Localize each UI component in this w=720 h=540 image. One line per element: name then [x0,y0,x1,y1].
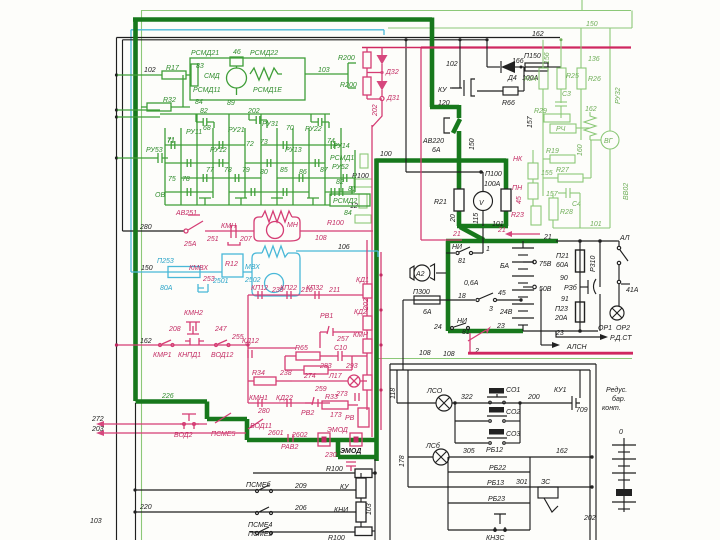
junction dots on frame [115,73,118,76]
pink column top: resistor R200 box 1 [363,52,371,68]
svg-text:238: 238 [279,370,292,377]
button KNZS [448,529,530,531]
svg-text:106: 106 [338,244,350,251]
svg-text:6А: 6А [432,147,441,154]
pink rail x=381 [380,252,382,430]
svg-text:77: 77 [206,167,215,174]
svg-text:АВ251: АВ251 [175,210,197,217]
svg-text:РУ14: РУ14 [333,143,350,150]
svg-text:РСМД1Е: РСМД1Е [253,87,282,94]
svg-text:КУ: КУ [438,87,448,94]
capacitor below EMOD [346,462,356,471]
svg-text:ЛСб: ЛСб [425,442,441,450]
svg-text:21: 21 [452,231,461,238]
contact SO1 [489,388,504,394]
svg-text:272: 272 [91,416,104,423]
svg-text:200: 200 [527,394,540,401]
svg-text:78: 78 [224,167,232,174]
svg-text:РСМД11: РСМД11 [193,87,221,94]
thick green route: horizontal y=419 [207,417,247,422]
svg-text:КУ: КУ [340,484,350,491]
svg-text:РВ: РВ [345,415,355,422]
diode D31 [377,81,388,91]
blade VOD11 on green [248,419,263,429]
svg-text:305: 305 [463,448,475,455]
vertical x=600 [599,241,601,287]
svg-text:20: 20 [450,214,457,223]
contact VOD12 [215,344,218,347]
svg-text:НИ: НИ [452,244,463,251]
svg-text:2501: 2501 [212,278,229,285]
svg-text:КМН: КМН [221,223,237,230]
pink resistor R200 box 2 [363,77,371,95]
contact KP12 [258,291,262,299]
svg-text:ВОД12: ВОД12 [211,352,234,359]
svg-text:207: 207 [239,236,253,243]
svg-text:конт.: конт. [602,405,621,412]
contact KP32 [315,291,319,299]
svg-text:75В: 75В [539,261,552,268]
resistor R21 box on green [454,189,464,211]
svg-text:П21: П21 [556,253,569,260]
black corner to AB251 line [123,230,185,232]
motor SMD circle [230,57,243,66]
svg-text:ЭМОД: ЭМОД [340,448,361,455]
svg-text:R100: R100 [327,220,344,227]
SO3 parallel branch [455,442,488,444]
svg-text:87: 87 [320,167,329,174]
svg-text:101: 101 [590,221,602,228]
voltmeter feed wire [482,172,484,192]
black vertical x=406 [405,40,407,172]
svg-text:R28: R28 [560,209,573,216]
svg-text:СО3: СО3 [506,431,520,438]
svg-text:206: 206 [294,505,307,512]
EMOD green box bottom [338,455,377,460]
svg-text:23: 23 [496,323,505,330]
pink bus left portion [362,47,421,49]
thick green route: bottom of meter loop y=226 [457,224,508,229]
svg-text:РУ12: РУ12 [210,147,227,154]
svg-text:КД2: КД2 [354,309,367,316]
thick green route: left long vertical [133,18,138,402]
relay coil box 4 [363,375,372,390]
svg-text:46: 46 [233,49,241,56]
svg-text:БА: БА [500,263,509,270]
svg-text:РБ12: РБ12 [486,447,503,454]
svg-text:ВГ: ВГ [604,138,614,145]
bus line 2 [390,369,590,371]
svg-text:280: 280 [139,224,152,231]
black vertical x=135 lower [135,403,137,540]
zigzag resistor RSMD1E [250,68,282,80]
svg-text:РВ1: РВ1 [320,313,333,320]
svg-text:КП22: КП22 [280,285,297,292]
wires below resistors [542,89,544,115]
svg-text:3: 3 [489,306,493,313]
svg-text:156: 156 [544,52,551,64]
svg-text:68: 68 [203,125,211,132]
svg-text:П300: П300 [413,289,430,296]
svg-text:ЛСО: ЛСО [426,388,443,395]
svg-text:ВВ02: ВВ02 [623,183,630,200]
svg-text:ЗС: ЗС [541,479,551,486]
svg-text:102: 102 [144,67,156,74]
svg-text:203: 203 [91,426,104,433]
svg-text:КМВХ: КМВХ [189,265,208,272]
RB13 line [408,486,590,488]
pink long bus y=353 [468,352,633,355]
thick green blade diagonal [460,227,484,240]
svg-text:бар.: бар. [612,395,626,403]
svg-text:80А: 80А [160,285,173,292]
svg-text:84: 84 [344,210,352,217]
svg-text:АЛСН: АЛСН [566,344,588,351]
pink KMN2 control line y=345 [117,344,248,346]
svg-text:Р.Д.СТ: Р.Д.СТ [610,335,632,342]
black frame inner vertical [122,40,124,231]
resistor R66 [477,90,503,92]
svg-text:КНЗС: КНЗС [486,535,505,540]
svg-text:226: 226 [161,393,174,400]
svg-text:273: 273 [335,391,348,398]
svg-text:108: 108 [315,235,327,242]
svg-text:162: 162 [140,338,152,345]
bottom bus y=331 black to RDST [523,330,598,332]
svg-text:709: 709 [576,407,588,414]
resistor lower [304,366,328,374]
pink arrow line 272 [104,423,207,425]
svg-text:82: 82 [336,179,344,186]
svg-text:108: 108 [443,351,455,358]
dashed stubs y=110 y=117 [117,109,160,111]
svg-text:21: 21 [497,227,506,234]
junction dot [479,170,482,173]
resistor R12 [222,254,243,277]
ammeter A2 [410,266,414,280]
svg-text:72: 72 [246,141,254,148]
svg-text:41А: 41А [626,287,639,294]
black frame top horizontal inner [123,39,488,41]
black vertical from EMOD down [374,459,376,540]
black frame outer vertical [116,38,118,540]
light green long horizontal 108 line [376,358,632,360]
battery tap 50V [523,286,532,288]
pink arrow 21 right [512,233,540,235]
top battery bus y=241 black [556,240,617,242]
svg-text:118: 118 [390,388,397,399]
svg-text:100А: 100А [484,181,501,188]
thick green route: AB220 vertical [457,105,462,118]
svg-text:РБ22: РБ22 [489,465,506,472]
pink link down to pink bus [469,333,471,352]
svg-text:R34: R34 [252,370,265,377]
zigzag resistor vertical [584,112,596,140]
svg-text:ОР2: ОР2 [616,325,630,332]
thick green route: jog horizontal y=107 [430,105,459,110]
light green bus y=28 [388,27,632,29]
svg-text:СМД: СМД [204,73,220,80]
svg-text:Д32: Д32 [385,69,399,76]
winding resistor vertical [191,64,198,86]
svg-text:РУ11: РУ11 [186,129,202,136]
svg-text:КП12: КП12 [251,285,268,292]
svg-text:78: 78 [182,176,190,183]
svg-text:R66: R66 [502,100,515,107]
svg-text:100: 100 [380,151,392,158]
svg-text:Р310: Р310 [590,256,597,272]
svg-text:108: 108 [419,350,431,357]
svg-text:АЛ: АЛ [619,235,630,242]
svg-text:РУ53: РУ53 [146,147,163,154]
svg-text:103: 103 [366,503,373,515]
svg-text:R26: R26 [588,76,601,83]
svg-text:МН: МН [287,222,299,229]
pink top bus y=47 [421,46,631,48]
svg-text:85: 85 [280,167,288,174]
RB23 branch [448,502,530,504]
bottom-left: R100 line y=473 [253,472,355,474]
svg-text:120: 120 [438,100,450,107]
svg-text:А2: А2 [415,271,425,278]
right rails [595,364,597,540]
svg-text:МВХ: МВХ [245,264,260,271]
svg-text:75: 75 [168,176,176,183]
svg-text:301: 301 [516,479,528,486]
ALSN arrow [540,289,542,345]
svg-text:П150: П150 [524,53,541,60]
fuse P300 [403,299,414,301]
relay box RSMD2 [330,194,370,206]
thick green route: vertical x=207 [205,402,210,420]
svg-text:РЧ: РЧ [556,126,566,133]
svg-text:ПН: ПН [512,185,523,192]
pink rail x=248 [247,295,249,403]
battery tap 75V [523,261,532,263]
thick green route: horizontal y=160 [376,158,507,163]
svg-text:ОР1: ОР1 [598,325,612,332]
left rail box [389,364,391,540]
svg-text:18: 18 [458,293,466,300]
pink arrow line 203 [104,432,246,434]
AB220 breaker blade green [453,119,460,133]
svg-text:С3: С3 [562,91,571,98]
light green frame top horizontal [141,10,631,12]
svg-text:РУ31: РУ31 [262,121,279,128]
svg-text:РЗб: РЗб [564,284,578,292]
svg-text:НК: НК [513,156,523,163]
svg-text:90: 90 [560,275,568,282]
thick green vertical x=448 [446,241,451,331]
black horizontal to P100 [406,171,483,173]
svg-text:89: 89 [227,100,235,107]
svg-text:103: 103 [318,67,330,74]
RDST arrow [556,331,600,337]
svg-text:П253: П253 [157,258,174,265]
svg-text:208: 208 [168,326,181,333]
svg-text:103: 103 [90,518,102,525]
resistor R25 [557,68,566,89]
svg-text:150: 150 [586,21,598,28]
svg-text:ВОД2: ВОД2 [174,432,193,439]
RU53 line [117,157,153,159]
AB220 breaker bracket black [444,118,450,133]
pale green resistor cluster left of route [360,154,368,168]
svg-text:70: 70 [286,125,294,132]
svg-text:115: 115 [473,213,480,224]
capacitor C4 [565,188,567,198]
svg-text:0,6А: 0,6А [464,280,479,287]
thick green horizontal y=331 to battery [448,329,523,334]
svg-text:73: 73 [260,139,268,146]
contacts KMN1 KD22 row y=403 [248,402,330,404]
pink blade at NI [468,330,486,341]
svg-text:ПСМЕ5: ПСМЕ5 [211,431,236,438]
svg-text:155: 155 [541,170,553,177]
svg-text:РУ21: РУ21 [228,127,245,134]
svg-text:R100: R100 [326,466,343,473]
svg-text:162: 162 [585,106,597,113]
svg-text:71: 71 [167,137,175,144]
svg-text:РВ2: РВ2 [301,410,314,417]
svg-text:162: 162 [556,448,568,455]
fuse P21 60A [579,241,581,250]
svg-text:СО2: СО2 [506,409,520,416]
svg-text:79: 79 [242,167,250,174]
line y=512 [135,511,356,513]
contact KP22 [287,291,291,299]
svg-text:220: 220 [139,504,152,511]
RU53 contact [153,153,168,163]
svg-text:R100: R100 [328,535,345,540]
contact KMR1 [159,344,162,347]
svg-text:С10: С10 [334,345,347,352]
svg-text:25А: 25А [183,241,197,248]
thick green route: vertical x=459 shunt [457,161,462,227]
black vertical x=403 down to bus [402,300,404,370]
svg-text:136: 136 [588,56,600,63]
motor block SMD box [190,58,305,100]
thick green route: long vertical x=375 [374,159,379,462]
svg-text:157: 157 [546,191,559,198]
svg-text:230: 230 [324,452,337,459]
svg-text:П23: П23 [555,306,568,313]
light green right block: top node wires [542,40,544,68]
pink line AB251 [205,230,254,232]
shunt resistor box right on green [501,189,511,211]
svg-text:R200: R200 [338,55,355,62]
svg-text:R24: R24 [524,76,537,83]
svg-text:24: 24 [433,324,442,331]
svg-text:РСМД2: РСМД2 [333,198,357,205]
svg-text:КП32: КП32 [306,285,323,292]
svg-text:60А: 60А [556,262,569,269]
bottom bus of RU grid [165,204,330,206]
svg-text:РУ13: РУ13 [285,147,302,154]
svg-text:КД12: КД12 [242,338,259,345]
svg-text:КМН2: КМН2 [184,310,203,317]
generator VG [601,131,619,149]
svg-text:1: 1 [486,246,490,253]
svg-text:РСМД21: РСМД21 [191,50,219,57]
svg-text:21: 21 [543,234,552,241]
pink bus corner vertical x=421 [420,48,422,240]
svg-text:СО1: СО1 [506,387,520,394]
svg-text:24В: 24В [499,309,513,316]
bus y=114 [160,113,330,115]
svg-text:КНПД1: КНПД1 [178,352,201,359]
svg-text:280: 280 [257,408,270,415]
svg-text:45: 45 [498,290,506,297]
svg-text:209: 209 [294,483,307,490]
svg-text:ВОД11: ВОД11 [250,423,272,430]
light green vertical x=610 [609,28,611,131]
svg-text:РУ52: РУ52 [332,164,349,171]
svg-text:91: 91 [561,296,569,303]
svg-text:0: 0 [619,429,623,436]
svg-text:РСМД22: РСМД22 [250,50,278,57]
EMOD green box left side [336,440,341,457]
svg-text:R21: R21 [434,199,447,206]
svg-text:Л17: Л17 [328,373,343,380]
svg-text:202: 202 [372,104,379,117]
relay RCh box [550,124,576,133]
svg-text:РБ13: РБ13 [487,480,504,487]
blade PSME5 on green [215,413,231,423]
svg-text:ОВ: ОВ [155,192,165,199]
cyan stub end [383,30,385,35]
svg-text:81: 81 [462,329,470,336]
green dashed stub y=75 [117,74,162,76]
svg-text:R27: R27 [556,167,570,174]
thick green route: horizontal y=440 [247,438,377,443]
svg-text:R12: R12 [225,261,238,268]
svg-text:АВ220: АВ220 [422,138,444,145]
svg-text:82: 82 [200,108,208,115]
switch blades 24V [476,298,479,301]
svg-text:РСМД1: РСМД1 [330,155,354,162]
svg-text:84: 84 [195,99,203,106]
svg-text:R19: R19 [546,148,559,155]
push button VOD2 [180,414,199,429]
thick green horizontal y=241 [446,239,558,244]
black frame top horizontal outer [117,37,561,39]
svg-text:Д4: Д4 [507,75,517,82]
svg-text:R23: R23 [511,212,524,219]
diode D4 [486,40,488,67]
thick green route: vertical x=247 [245,419,250,440]
svg-text:2601: 2601 [267,430,284,437]
signal lamp OR1 [610,306,624,320]
svg-text:81: 81 [458,258,466,265]
svg-text:257: 257 [336,336,350,343]
svg-text:КНИ: КНИ [334,507,349,514]
diode D32 [381,48,383,56]
RB22 branch [447,457,449,530]
wire to 24V switch [440,299,475,301]
svg-text:166: 166 [512,58,524,65]
svg-text:ПСМЕ4: ПСМЕ4 [248,522,273,529]
wire MN to green [300,230,373,232]
inner left rail [396,370,398,403]
svg-text:251: 251 [206,236,219,243]
svg-text:83: 83 [196,63,204,70]
svg-text:П100: П100 [485,171,502,178]
svg-text:211: 211 [328,287,340,294]
light green stub to top edge [581,0,583,11]
cyan frame horizontal [131,29,384,31]
svg-text:80: 80 [260,169,268,176]
